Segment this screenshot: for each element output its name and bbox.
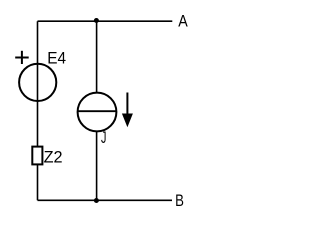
voltage source E4 circle xyxy=(19,64,56,101)
junction node bottom xyxy=(94,198,99,203)
voltage source plus sign xyxy=(15,51,29,64)
svg-text:B: B xyxy=(175,191,184,210)
current source chord line xyxy=(78,110,117,112)
current direction arrow xyxy=(122,93,133,128)
wire top horizontal A rail xyxy=(38,20,173,22)
junction node top xyxy=(94,18,99,23)
svg-text:A: A xyxy=(178,11,188,30)
svg-text:J: J xyxy=(101,128,106,147)
wire middle vertical branch xyxy=(96,21,98,200)
resistor Z2 body xyxy=(32,147,42,165)
wire left vertical branch through E4 xyxy=(37,21,39,200)
svg-text:Z2: Z2 xyxy=(44,148,63,167)
svg-text:E4: E4 xyxy=(47,48,66,67)
current source circle xyxy=(78,93,117,132)
wire bottom horizontal B rail xyxy=(38,199,173,201)
